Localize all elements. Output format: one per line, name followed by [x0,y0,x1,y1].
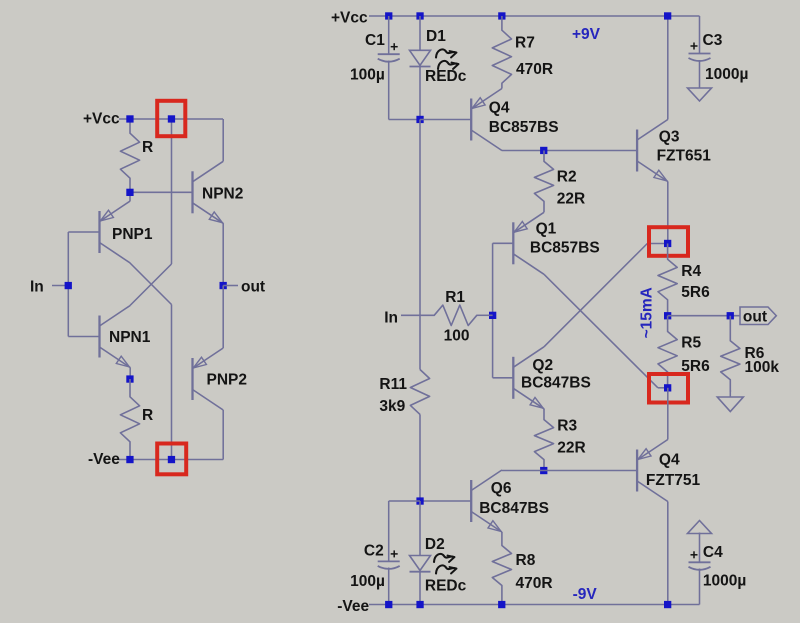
node R3 bottom junction [540,467,547,474]
wire PNP1 emitter stub [129,192,131,201]
red highlight box (upper left) [157,101,185,136]
svg-text:C4: C4 [703,544,723,561]
ground above C4 (inverted) [688,521,712,534]
wire -Vee bottom rail [369,604,700,606]
svg-text:D2: D2 [425,536,445,553]
wire Q6 base [420,500,471,502]
svg-text:In: In [30,279,44,296]
capacitor C2 [388,501,390,561]
red highlight box (lower right) [649,374,688,403]
capacitor C1 [388,16,390,54]
svg-text:R8: R8 [516,552,536,569]
node Q4 collector rail junction [664,601,671,608]
svg-text:3k9: 3k9 [379,398,405,415]
svg-text:R4: R4 [681,263,701,280]
wire C2 top [389,500,420,502]
svg-text:NPN2: NPN2 [202,186,243,203]
svg-text:5R6: 5R6 [681,284,710,301]
node output junction [664,312,671,319]
svg-text:470R: 470R [516,61,553,78]
svg-text:1000µ: 1000µ [705,66,748,83]
node out junction (left) [220,282,227,289]
capacitor C4 [699,533,701,563]
svg-text:Q1: Q1 [536,221,557,238]
resistor R6 [721,316,740,392]
resistor R11 [419,120,421,370]
svg-text:NPN1: NPN1 [109,329,151,346]
svg-text:Q3: Q3 [659,129,680,146]
transistor Q2 BC847BS [512,357,514,399]
wire Q4 base [420,119,471,121]
transistor Q4 FZT751 (bottom) [636,450,638,492]
resistor R3 [534,409,553,471]
svg-text:R11: R11 [379,376,407,393]
svg-text:C2: C2 [364,542,384,559]
svg-text:BC847BS: BC847BS [521,375,591,392]
svg-text:100µ: 100µ [350,67,385,84]
svg-text:22R: 22R [557,191,585,208]
svg-text:R1: R1 [445,289,465,306]
node Q3 collector rail junction [664,12,671,19]
svg-text:470R: 470R [516,575,553,592]
node upper red junction [664,240,671,247]
svg-text:PNP2: PNP2 [207,372,248,389]
wire NPN2 emitter to out [222,223,224,285]
node lower red junction [664,384,671,391]
svg-text:REDc: REDc [425,68,467,85]
wire Q4 emitter to lower node [667,388,669,440]
svg-text:Q4: Q4 [659,452,680,469]
svg-text:R5: R5 [681,335,701,352]
wire Q3 collector [667,16,669,120]
node NPN2 base junction [126,189,133,196]
svg-text:BC857BS: BC857BS [530,240,600,257]
resistor R2 [534,151,553,213]
node R1 junction [489,312,496,319]
svg-text:100µ: 100µ [350,573,385,590]
svg-text:R7: R7 [515,35,535,52]
svg-text:out: out [743,309,767,326]
node C2 rail junction [385,601,392,608]
svg-text:R: R [142,139,153,156]
resistor R5 [658,316,677,388]
svg-text:PNP1: PNP1 [112,226,153,243]
node In junction (left) [65,282,72,289]
wire Q4 collector to Q3 base [502,150,637,152]
capacitor C3 [699,16,701,54]
wire Q2 collector to upper node [544,244,647,347]
svg-text:-9V: -9V [573,586,598,603]
svg-text:Q4: Q4 [489,100,510,117]
ground below R6 [717,397,743,412]
wire NPN1 collector to +Vcc vertical [130,264,172,306]
svg-text:+Vcc: +Vcc [83,111,120,128]
transistor PNP1 [98,211,100,253]
node +Vcc rail junction [126,115,133,122]
node PNP2 base junction [126,375,133,382]
wire In lead (right) [401,314,434,316]
node R7 rail junction [498,12,505,19]
ground below C3 [688,88,712,101]
svg-text:+Vcc: +Vcc [331,10,368,27]
svg-text:R2: R2 [557,168,577,185]
transistor Q6 BC847BS [470,480,472,522]
svg-text:C3: C3 [703,32,723,49]
node D1 rail junction [416,12,423,19]
wire base bracket PNP1/NPN1 [68,231,99,233]
node Q6 base junction [416,497,423,504]
svg-text:out: out [241,279,265,296]
svg-text:In: In [384,310,398,327]
node +Vcc collector junction (red boxed) [168,115,175,122]
svg-text:100k: 100k [745,359,780,376]
wire PNP2 collector to -Vee [222,410,224,460]
red highlight box (lower left) [157,444,186,475]
resistor R (lower left) [120,379,139,460]
svg-text:22R: 22R [557,439,585,456]
wire Q1 collector to lower node [544,274,658,388]
wire NPN2 collector [222,119,224,161]
svg-text:Q6: Q6 [491,480,512,497]
out flag [740,307,776,325]
wire out stub (left) [223,285,238,287]
wire Q4 collector to -Vee rail [667,502,669,605]
svg-text:-Vee: -Vee [337,598,369,615]
wire NPN1 emitter stub [129,368,131,380]
node -Vee R junction [126,456,133,463]
node R2 top junction [540,147,547,154]
resistor R1 [434,305,477,325]
wire PNP2 emitter to out [222,286,224,349]
wire In stub (left) [52,285,68,287]
node R8 rail junction [498,601,505,608]
wire output to out flag [668,315,740,317]
svg-text:REDc: REDc [425,578,467,595]
svg-text:R: R [142,407,153,424]
transistor Q4 BC857BS (top) [470,99,472,141]
node D2 rail junction [416,601,423,608]
svg-text:D1: D1 [426,28,446,45]
svg-text:-Vee: -Vee [88,451,120,468]
wire PNP1 collector to -Vee vertical [130,263,172,305]
resistor R7 [492,16,511,89]
svg-text:Q2: Q2 [532,357,553,374]
resistor R8 [492,532,511,605]
svg-text:100: 100 [444,328,470,345]
node out flag junction [727,312,734,319]
svg-text:R3: R3 [557,418,577,435]
transistor Q1 BC857BS [512,222,514,264]
transistor NPN1 [98,316,100,358]
wire +Vcc top rail [369,15,700,17]
node C1 rail junction [385,12,392,19]
svg-text:FZT751: FZT751 [646,472,701,489]
svg-text:BC857BS: BC857BS [489,119,559,136]
node D1 bottom junction [416,116,423,123]
wire C1 to D1 node [389,119,420,121]
svg-text:BC847BS: BC847BS [479,500,549,517]
resistor R4 [658,244,677,316]
transistor NPN2 [191,171,193,213]
svg-text:C1: C1 [365,32,385,49]
node -Vee collector junction (red boxed) [168,456,175,463]
transistor PNP2 [191,358,193,400]
red highlight box (upper right) [649,227,688,256]
wire NPN2 base [130,191,193,193]
wire +Vcc rail (left circuit) [119,118,223,120]
wire Q6 collector to Q4 base (bottom) [502,470,637,472]
svg-text:+9V: +9V [572,26,601,43]
diode D1 (LED) [419,16,421,50]
wire Q3 emitter to upper node [667,182,669,244]
diode D2 (LED) [419,501,421,556]
svg-text:~15mA: ~15mA [639,287,656,338]
wire -Vee rail (left) [119,459,172,461]
svg-text:1000µ: 1000µ [703,573,746,590]
transistor Q3 FZT651 [636,130,638,172]
svg-text:FZT651: FZT651 [657,148,712,165]
resistor R (upper left) [120,119,139,192]
wire Q1/Q2 base bracket [493,242,514,244]
